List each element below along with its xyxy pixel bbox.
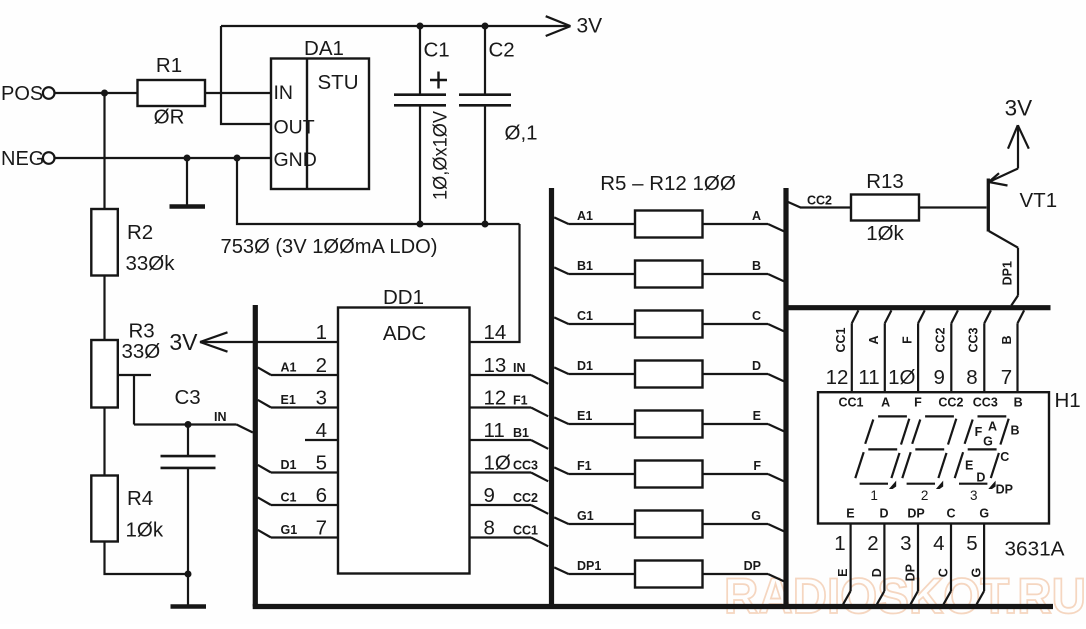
wire 3V top rail <box>221 25 570 27</box>
svg-text:F: F <box>975 425 983 439</box>
bus bottom horizontal <box>253 604 1053 609</box>
svg-text:R5 – R12 1ØØ: R5 – R12 1ØØ <box>600 172 736 195</box>
junction R4/C3 ground <box>185 571 192 578</box>
node 3V arrow (pin 1) <box>169 329 227 355</box>
svg-text:CC2: CC2 <box>938 396 963 410</box>
svg-text:33Ø: 33Ø <box>122 340 161 363</box>
svg-text:3: 3 <box>316 387 327 410</box>
svg-text:5: 5 <box>966 532 977 555</box>
wire display pin 5 (G) to bus <box>977 524 985 605</box>
svg-text:R2: R2 <box>127 221 153 244</box>
svg-text:G: G <box>970 568 984 578</box>
svg-text:A: A <box>881 396 890 410</box>
svg-text:C: C <box>946 507 955 521</box>
wire display pin 7 (B) from bus <box>1018 310 1025 392</box>
wire NEG to DA1 GND <box>55 157 272 159</box>
svg-text:DA1: DA1 <box>304 37 344 60</box>
wire DD1 pin 7 (G1) to bus <box>258 530 338 538</box>
svg-text:1Øk: 1Øk <box>126 519 164 542</box>
svg-text:NEG: NEG <box>1 148 44 170</box>
svg-text:6: 6 <box>316 484 327 507</box>
svg-text:DP: DP <box>907 507 924 521</box>
wire R4 bottom to C3 bottom <box>105 542 189 575</box>
svg-text:3: 3 <box>900 532 911 555</box>
svg-text:1Øk: 1Øk <box>866 222 904 245</box>
node 3V arrow (VT1 emitter) <box>1005 96 1033 149</box>
svg-text:1Ø: 1Ø <box>484 452 511 475</box>
svg-text:GND: GND <box>274 149 317 171</box>
svg-text:33Øk: 33Øk <box>126 252 176 275</box>
wire display pin 8 (CC3) from bus <box>984 310 991 392</box>
node 3V arrow (top rail) <box>546 15 602 38</box>
junction POS/R2 <box>101 90 108 97</box>
node POS terminal <box>1 83 55 105</box>
resistor R10 row (F1-F) <box>554 459 784 488</box>
svg-text:CC2: CC2 <box>934 327 948 352</box>
svg-text:D: D <box>752 359 761 373</box>
svg-text:C2: C2 <box>489 39 515 62</box>
svg-text:E: E <box>965 459 973 473</box>
wire DD1 pin 8 (CC1) to bus <box>470 538 549 547</box>
svg-text:D1: D1 <box>281 458 297 472</box>
svg-text:2: 2 <box>921 488 929 503</box>
digit 3 segment letter labels <box>965 420 1019 497</box>
svg-text:11: 11 <box>484 419 505 442</box>
svg-text:1: 1 <box>834 532 845 555</box>
svg-text:2: 2 <box>316 354 327 377</box>
resistor R2 <box>91 209 175 276</box>
display inner top pin labels <box>838 396 1022 410</box>
wire DD1 pin 5 (D1) to bus <box>258 465 338 473</box>
svg-text:1: 1 <box>870 488 878 503</box>
wire display pin 2 (D) to bus <box>877 524 885 605</box>
wire R3 to R4 <box>103 408 105 478</box>
svg-text:753Ø (3V 1ØØmA LDO): 753Ø (3V 1ØØmA LDO) <box>221 235 438 258</box>
junction C1 bottom <box>417 221 424 228</box>
bus display horizontal <box>786 305 1051 310</box>
svg-text:Ø,1: Ø,1 <box>505 122 538 145</box>
digit 2 of display <box>902 416 956 489</box>
wire R2 to R3 <box>103 276 105 341</box>
junction NEG/GND-rail <box>234 155 241 162</box>
svg-text:C: C <box>1000 450 1009 464</box>
svg-text:3: 3 <box>970 488 978 503</box>
bus middle vertical <box>549 188 554 607</box>
svg-text:C1: C1 <box>281 490 297 504</box>
svg-text:IN: IN <box>513 361 526 375</box>
capacitor C2 <box>459 26 538 224</box>
svg-text:E: E <box>753 409 761 423</box>
pin 4 stub (NC) <box>305 439 338 441</box>
wire DD1 pin 11 (B1) to bus <box>470 440 549 449</box>
resistor R4 <box>91 476 164 542</box>
wire DD1 pin 2 (A1) to bus <box>258 367 338 375</box>
svg-text:D: D <box>870 568 884 577</box>
svg-text:CC3: CC3 <box>967 327 981 352</box>
display H1 3631A body <box>818 392 1049 523</box>
ground (near C3) <box>171 574 207 607</box>
svg-text:G: G <box>983 434 993 448</box>
resistor R12 row (DP1-DP) <box>554 559 784 588</box>
svg-text:G: G <box>751 509 761 523</box>
capacitor C3 <box>161 386 216 574</box>
wire DD1 pin 3 (E1) to bus <box>258 400 338 408</box>
svg-text:A: A <box>988 420 997 434</box>
wire GND rail: NEG junction down and right to pin14 riser <box>237 158 520 224</box>
svg-text:E1: E1 <box>281 393 296 407</box>
wire IN diagonal into bus <box>237 425 253 433</box>
svg-text:D: D <box>976 471 985 485</box>
svg-text:2: 2 <box>867 532 878 555</box>
svg-text:IN: IN <box>214 410 227 424</box>
svg-text:C1: C1 <box>577 309 593 323</box>
svg-text:R1: R1 <box>156 54 182 77</box>
wire riser to DD1 pin 14 <box>470 224 520 342</box>
resistor R3 (trimmer) <box>91 320 160 408</box>
svg-text:3V: 3V <box>577 15 603 38</box>
display inner bottom pin labels <box>846 507 989 521</box>
wire display pin 4 (C) to bus <box>944 524 952 605</box>
svg-text:E: E <box>846 507 854 521</box>
svg-text:CC2: CC2 <box>513 491 538 505</box>
regulator DA1 7530 <box>271 37 369 189</box>
svg-text:B: B <box>752 259 761 273</box>
svg-text:CC1: CC1 <box>834 327 848 352</box>
svg-text:F1: F1 <box>577 459 592 473</box>
svg-text:CC1: CC1 <box>838 396 863 410</box>
svg-text:DD1: DD1 <box>383 286 424 309</box>
resistor R9 row (E1-E) <box>554 409 784 438</box>
svg-text:CC3: CC3 <box>513 459 538 473</box>
svg-text:D: D <box>879 507 888 521</box>
svg-text:B: B <box>1000 335 1014 344</box>
svg-text:9: 9 <box>484 484 495 507</box>
svg-text:A1: A1 <box>281 360 297 374</box>
svg-text:7: 7 <box>316 517 327 540</box>
svg-text:G1: G1 <box>281 523 298 537</box>
svg-text:7: 7 <box>1001 366 1012 389</box>
svg-text:ØR: ØR <box>154 106 185 129</box>
svg-text:H1: H1 <box>1055 389 1081 412</box>
wire display pin 9 (CC2) from bus <box>951 310 958 392</box>
resistor R5 row (A1-A) <box>554 209 784 238</box>
svg-text:11: 11 <box>858 366 879 389</box>
wire DD1 pin 10 (CC3) to bus <box>470 473 549 482</box>
svg-text:A: A <box>752 209 761 223</box>
wire R13 to VT1 base <box>919 206 987 208</box>
node NEG terminal <box>1 148 55 170</box>
svg-text:8: 8 <box>484 517 495 540</box>
wire DD1 pin 6 (C1) to bus <box>258 497 338 505</box>
resistor R8 row (D1-D) <box>554 359 784 388</box>
wire display pin 1 (E) to bus <box>843 524 851 605</box>
svg-text:G1: G1 <box>577 509 594 523</box>
resistor R13 <box>851 170 919 245</box>
wire POS junction down to R2 <box>103 93 105 209</box>
capacitor C1 <box>394 26 452 224</box>
svg-text:1Ø,Øx1ØV: 1Ø,Øx1ØV <box>430 111 452 200</box>
svg-text:12: 12 <box>484 387 507 410</box>
svg-text:C3: C3 <box>175 386 201 409</box>
svg-text:1: 1 <box>316 321 327 344</box>
digit 1 of display <box>855 416 909 489</box>
svg-text:F: F <box>914 396 922 410</box>
junction C3 top <box>185 421 192 428</box>
wire DD1 pin 9 (CC2) to bus <box>470 505 549 514</box>
svg-text:3V: 3V <box>169 329 198 355</box>
svg-text:POS: POS <box>1 83 43 105</box>
wire R1 to DA1 IN <box>205 92 271 94</box>
svg-text:4: 4 <box>933 532 944 555</box>
svg-text:R13: R13 <box>866 170 904 193</box>
svg-text:C: C <box>936 568 950 577</box>
junction C1 top <box>417 23 424 30</box>
svg-text:VT1: VT1 <box>1020 189 1058 212</box>
wire IN node to bus <box>134 423 237 425</box>
svg-text:ADC: ADC <box>383 322 426 345</box>
svg-text:G: G <box>979 507 989 521</box>
svg-text:F: F <box>900 336 914 344</box>
svg-text:C: C <box>752 309 761 323</box>
svg-text:13: 13 <box>484 354 507 377</box>
junction C2 top <box>482 23 489 30</box>
wire R3 tap down to IN node <box>133 375 135 425</box>
svg-text:14: 14 <box>484 321 507 344</box>
bus right vertical <box>783 188 788 607</box>
svg-text:12: 12 <box>826 366 849 389</box>
svg-text:C1: C1 <box>424 39 450 62</box>
svg-text:B: B <box>1014 396 1023 410</box>
svg-text:5: 5 <box>316 452 327 475</box>
resistor R1 <box>138 54 206 129</box>
svg-text:DP1: DP1 <box>577 559 601 573</box>
svg-text:A: A <box>867 335 881 344</box>
svg-text:R4: R4 <box>127 487 153 510</box>
svg-text:CC1: CC1 <box>513 524 538 538</box>
svg-text:CC3: CC3 <box>973 396 998 410</box>
wire DD1 pin 13 (IN) to bus <box>470 375 549 384</box>
wire DA1 OUT riser <box>221 26 271 124</box>
svg-text:DP: DP <box>996 482 1013 496</box>
IC DD1 ADC <box>338 286 470 574</box>
svg-text:B1: B1 <box>513 426 529 440</box>
svg-text:IN: IN <box>274 82 294 104</box>
bus left vertical <box>253 305 258 607</box>
svg-text:F1: F1 <box>513 394 528 408</box>
ground (near NEG) <box>170 158 206 207</box>
svg-text:E1: E1 <box>577 409 592 423</box>
svg-text:E: E <box>836 569 850 577</box>
svg-text:4: 4 <box>316 419 327 442</box>
svg-text:9: 9 <box>933 366 944 389</box>
digit 3 of display <box>955 416 1009 489</box>
svg-text:1Ø: 1Ø <box>888 366 915 389</box>
svg-text:DP: DP <box>903 564 917 581</box>
svg-text:F: F <box>753 459 761 473</box>
resistor R7 row (C1-C) <box>554 309 784 338</box>
svg-text:DP1: DP1 <box>1000 261 1014 285</box>
wire display pin 11 (A) from bus <box>885 310 892 392</box>
wire display pin 12 (CC1) from bus <box>852 310 859 392</box>
svg-text:B1: B1 <box>577 259 593 273</box>
transistor VT1 <box>988 125 1057 306</box>
resistor R6 row (B1-B) <box>554 259 784 288</box>
wire display pin 3 (DP) to bus <box>911 524 919 605</box>
svg-text:3V: 3V <box>1005 96 1033 121</box>
svg-text:8: 8 <box>966 366 977 389</box>
svg-text:OUT: OUT <box>274 117 315 139</box>
svg-text:STU: STU <box>318 71 359 94</box>
junction NEG/ground <box>184 155 191 162</box>
svg-text:A1: A1 <box>577 209 593 223</box>
wire bus to R13 (CC2) <box>787 202 851 208</box>
svg-text:B: B <box>1010 424 1019 438</box>
wire DD1 pin 12 (F1) to bus <box>470 408 549 417</box>
svg-text:CC2: CC2 <box>807 194 832 208</box>
junction C2 bottom <box>482 221 489 228</box>
resistor R11 row (G1-G) <box>554 509 784 538</box>
wire display pin 10 (F) from bus <box>918 310 925 392</box>
svg-text:DP: DP <box>744 559 761 573</box>
wire POS to R1 <box>55 92 138 94</box>
svg-text:D1: D1 <box>577 359 593 373</box>
wire DD1 pin 1 to 3V arrow <box>200 341 338 343</box>
svg-text:3631A: 3631A <box>1005 538 1065 561</box>
